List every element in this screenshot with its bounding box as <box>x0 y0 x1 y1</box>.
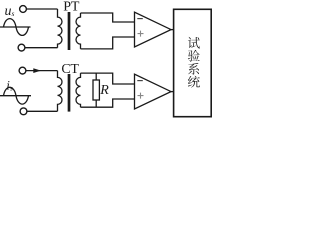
current direction arrow <box>33 68 41 73</box>
wire U2 output to box <box>171 91 174 93</box>
svg-text:T: T <box>71 0 80 14</box>
transformer PT primary winding <box>58 9 63 48</box>
box label char 试 <box>188 37 200 49</box>
terminal circle us top <box>20 6 27 13</box>
wire is top to CT <box>26 70 57 72</box>
U2 plus input label <box>138 93 144 99</box>
transformer CT core <box>68 74 71 112</box>
current source is sine symbol <box>0 87 31 104</box>
transformer CT secondary winding <box>76 73 81 107</box>
U2 minus input label <box>137 80 143 82</box>
wire U1 output to box <box>171 29 174 31</box>
U1 plus input label <box>138 31 144 37</box>
op-amp comparator U1 <box>135 12 172 47</box>
terminal circle us bottom <box>18 44 25 51</box>
wire is bottom to CT <box>27 110 57 112</box>
wire PT secondary top to comparator minus input <box>81 13 135 22</box>
terminal circle is top <box>19 67 26 74</box>
wire CT secondary top to comparator minus input <box>81 73 135 84</box>
wire resistor bottom lead <box>95 100 97 107</box>
voltage source us sine symbol <box>0 19 31 36</box>
wire CT secondary bottom to comparator plus input <box>81 99 135 107</box>
box label char 统 <box>188 76 200 88</box>
op-amp comparator U2 <box>135 74 172 109</box>
transformer PT core <box>68 12 71 50</box>
svg-text:R: R <box>99 83 109 98</box>
svg-text:C: C <box>61 62 70 77</box>
transformer PT secondary winding <box>76 13 81 49</box>
wire PT secondary bottom to comparator plus input <box>81 37 135 49</box>
box label char 系 <box>188 63 199 75</box>
U1 minus input label <box>137 18 143 20</box>
test system box <box>174 9 212 116</box>
terminal circle is bottom <box>20 108 27 115</box>
resistor R <box>93 80 99 100</box>
wire us top to PT <box>27 8 58 10</box>
transformer CT primary winding <box>58 71 63 112</box>
wire resistor top lead <box>95 73 97 80</box>
box label char 验 <box>188 50 200 62</box>
wire us bottom to PT <box>25 47 57 49</box>
svg-text:T: T <box>70 62 79 77</box>
